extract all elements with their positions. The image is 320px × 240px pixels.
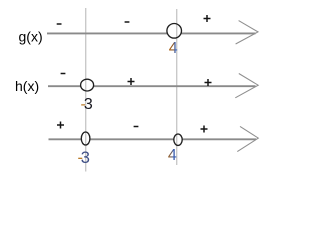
open circle on h(x) at x=-3 — [81, 79, 94, 91]
svg-text:g(x): g(x) — [19, 28, 43, 44]
svg-text:4: 4 — [169, 40, 178, 57]
wire: product row number line (segment 3) — [182, 138, 256, 140]
sign + (g row, right region) — [204, 15, 211, 22]
sign + (product row, left region) — [57, 122, 64, 129]
wire: product row number line (segment 2) — [90, 138, 174, 140]
svg-text:-3: -3 — [81, 96, 93, 113]
open ellipse (zero) on product row at x=-3 — [81, 132, 90, 145]
wire: h(x) number line (right segment) — [94, 85, 256, 87]
vertical line at x=4 (through all rows) — [176, 9, 178, 165]
sign + (product row, right region) — [201, 126, 208, 133]
arrowhead of product row line — [237, 126, 258, 151]
sign - (g row, left region) — [57, 23, 62, 25]
sign - (h row, left region) — [61, 73, 66, 75]
sign + (h row, right region) — [205, 79, 212, 86]
arrowhead of g(x) line — [236, 21, 258, 44]
open ellipse (zero) on product row at x=4 — [174, 134, 182, 145]
svg-text:h(x): h(x) — [15, 78, 39, 94]
wire: product row number line (segment 1) — [49, 138, 82, 140]
sign - (g row, middle region) — [125, 21, 130, 23]
arrowhead of h(x) line — [235, 74, 258, 98]
svg-text:-3: -3 — [78, 149, 90, 167]
sign - (product row, middle region) — [134, 126, 139, 128]
svg-text:4: 4 — [168, 147, 177, 164]
wire: g(x) number line (left segment) — [47, 32, 167, 34]
open circle on g(x) at x=4 — [167, 24, 182, 39]
sign + (h row, middle region) — [128, 78, 135, 85]
wire: g(x) number line (right segment) — [182, 32, 256, 34]
vertical line at x=-3 (through all rows) — [85, 8, 87, 172]
wire: h(x) number line (left segment) — [48, 85, 81, 87]
